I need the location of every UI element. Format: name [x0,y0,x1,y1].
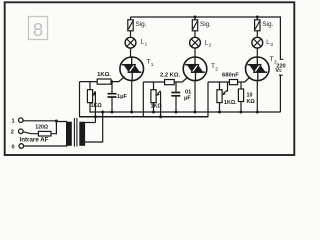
svg-text:680nF: 680nF [222,73,239,79]
border frame [5,2,295,155]
audio bus (lower line) [80,116,209,118]
svg-text:μF: μF [184,96,191,102]
wire pot2 top lead [153,82,155,90]
svg-text:KΩ: KΩ [247,99,256,105]
wire triac2 to bus [194,80,196,112]
svg-text:1KΩ.: 1KΩ. [224,100,237,106]
wire pot2 bottom to bus [153,103,155,113]
wire channel3 feed (C wire) [207,82,209,117]
wire terminal2 to 120Ω [23,132,38,134]
wire branch2 drop [194,17,196,20]
junction triac2-bus [194,111,197,114]
fuse F3 [255,20,260,31]
wire lamp1 to triac1 [130,48,132,58]
resistor R1 [97,79,111,84]
wire branch1 drop [130,17,132,20]
junction 120Ω right lead [55,120,58,123]
svg-text:120Ω: 120Ω [35,125,48,131]
gate wire T2 [174,77,188,82]
label T3 [270,56,277,65]
terminal 0 [12,144,24,151]
junction triac1-bus [130,111,133,114]
svg-text:3: 3 [270,42,273,47]
wire pot3 top lead [219,82,221,90]
junction branch2-top bus [194,16,197,19]
junction C2-bus [175,111,178,114]
wire lamp2 to triac2 [194,48,196,58]
wire pot2 wiper to audio bus [160,92,162,117]
wire secondary top to wiper line [85,122,96,124]
wire fuse3 to lamp3 [256,31,258,38]
junction C1-gate wire [111,80,114,83]
terminal 1 [12,118,24,125]
svg-text:1KΩ: 1KΩ [91,103,103,109]
wire triac1 to bus [131,80,133,112]
svg-text:2,2 KΩ.: 2,2 KΩ. [160,73,181,79]
wire fuse1 to lamp1 [130,31,132,38]
fuse F1 [128,20,133,31]
wire branch3 drop [256,17,258,20]
resistor R2 [165,80,175,85]
svg-text:1: 1 [151,62,154,68]
label L1 [141,40,148,47]
svg-text:Intrare AF: Intrare AF [20,137,49,144]
svg-text:1μF: 1μF [117,94,128,100]
svg-text:2: 2 [209,43,212,48]
junction pot2-bus [152,111,155,114]
resistor R3 10KΩ [238,82,243,113]
lamp L3 [252,37,263,48]
terminal 2 [11,129,23,136]
wire pot3 wiper stem [227,82,229,92]
svg-text:1: 1 [145,42,148,47]
lamp L1 [125,37,136,48]
capacitor C1 1µF [108,82,117,112]
svg-text:Sig.: Sig. [200,21,211,28]
junction R3-bus [240,111,243,114]
wire secondary bottom to neutral bus [85,112,103,142]
wire fuse2 to lamp2 [194,31,196,38]
wire terminal0 to primary bottom [24,145,67,147]
figure number box 8 [29,17,48,41]
junction branch3-top bus [256,16,259,19]
label L2 [205,41,212,48]
wire triac3 to bus [256,80,258,112]
svg-text:1: 1 [12,119,15,125]
svg-text:0: 0 [12,144,15,150]
label L3 [266,40,273,47]
wire mains drop [279,75,281,112]
svg-text:Sig.: Sig. [262,21,273,28]
junction secondary-neutral bus [101,111,104,114]
wire R1 left to pot1 top [80,81,98,83]
svg-text:2: 2 [11,130,14,136]
junction triac3-bus [256,111,259,114]
svg-text:8: 8 [33,19,43,40]
junction wiper2-audio bus [159,115,162,118]
label 01 µF [184,90,191,102]
label T1 [147,59,154,68]
label 220 V~ [275,63,285,74]
triac T1 [120,57,144,81]
wire lamp3 to triac3 [256,48,258,58]
wire mains to bottom bus [279,74,283,76]
junction wiper1-audio bus [94,115,97,118]
wire right drop to mains [280,16,283,59]
transformer Tr secondary winding [80,122,85,146]
potentiometer P2 1KΩ [151,90,161,103]
gate wire T1 [111,77,125,82]
transformer core [74,118,77,147]
transformer Tr primary winding [66,122,71,146]
svg-text:10: 10 [247,93,253,99]
top 220V bus wire [130,16,280,18]
fuse F2 [192,20,197,31]
wire R2 left to pot2 top [143,81,164,83]
wire pot1 top lead [89,82,91,90]
wire pot1 wiper to audio bus and transformer [94,92,96,123]
svg-text:2: 2 [215,66,218,72]
capacitor C3 680nF (boxed) [229,80,237,85]
lamp L2 [190,37,201,48]
wire channel1 feed (C wire) [79,82,81,118]
svg-text:Sig.: Sig. [136,21,147,28]
gate wire T3 [238,77,251,82]
label T2 [211,63,218,72]
potentiometer P3 1KΩ [217,90,228,103]
wire C3 left lead [208,81,229,83]
capacitor C2 .01µF [171,82,180,112]
triac T3 [245,57,269,81]
junction pot3-bus [218,111,221,114]
wire pot3 bottom to bus [219,103,221,113]
label 10 KΩ [247,93,256,105]
wire channel2 feed (C wire) [142,82,144,117]
junction C1-bus [111,111,114,114]
svg-text:3: 3 [274,60,277,66]
svg-text:1KΩ.: 1KΩ. [97,72,111,78]
resistor 120Ω [38,131,51,136]
wire pot1 bottom to bus [89,103,91,113]
potentiometer P1 1KΩ [87,90,96,103]
wire terminal1 to primary top [23,121,66,123]
bottom neutral bus [90,111,281,113]
triac T2 [183,57,207,81]
wire 120Ω to terminal1 wire [51,121,56,134]
